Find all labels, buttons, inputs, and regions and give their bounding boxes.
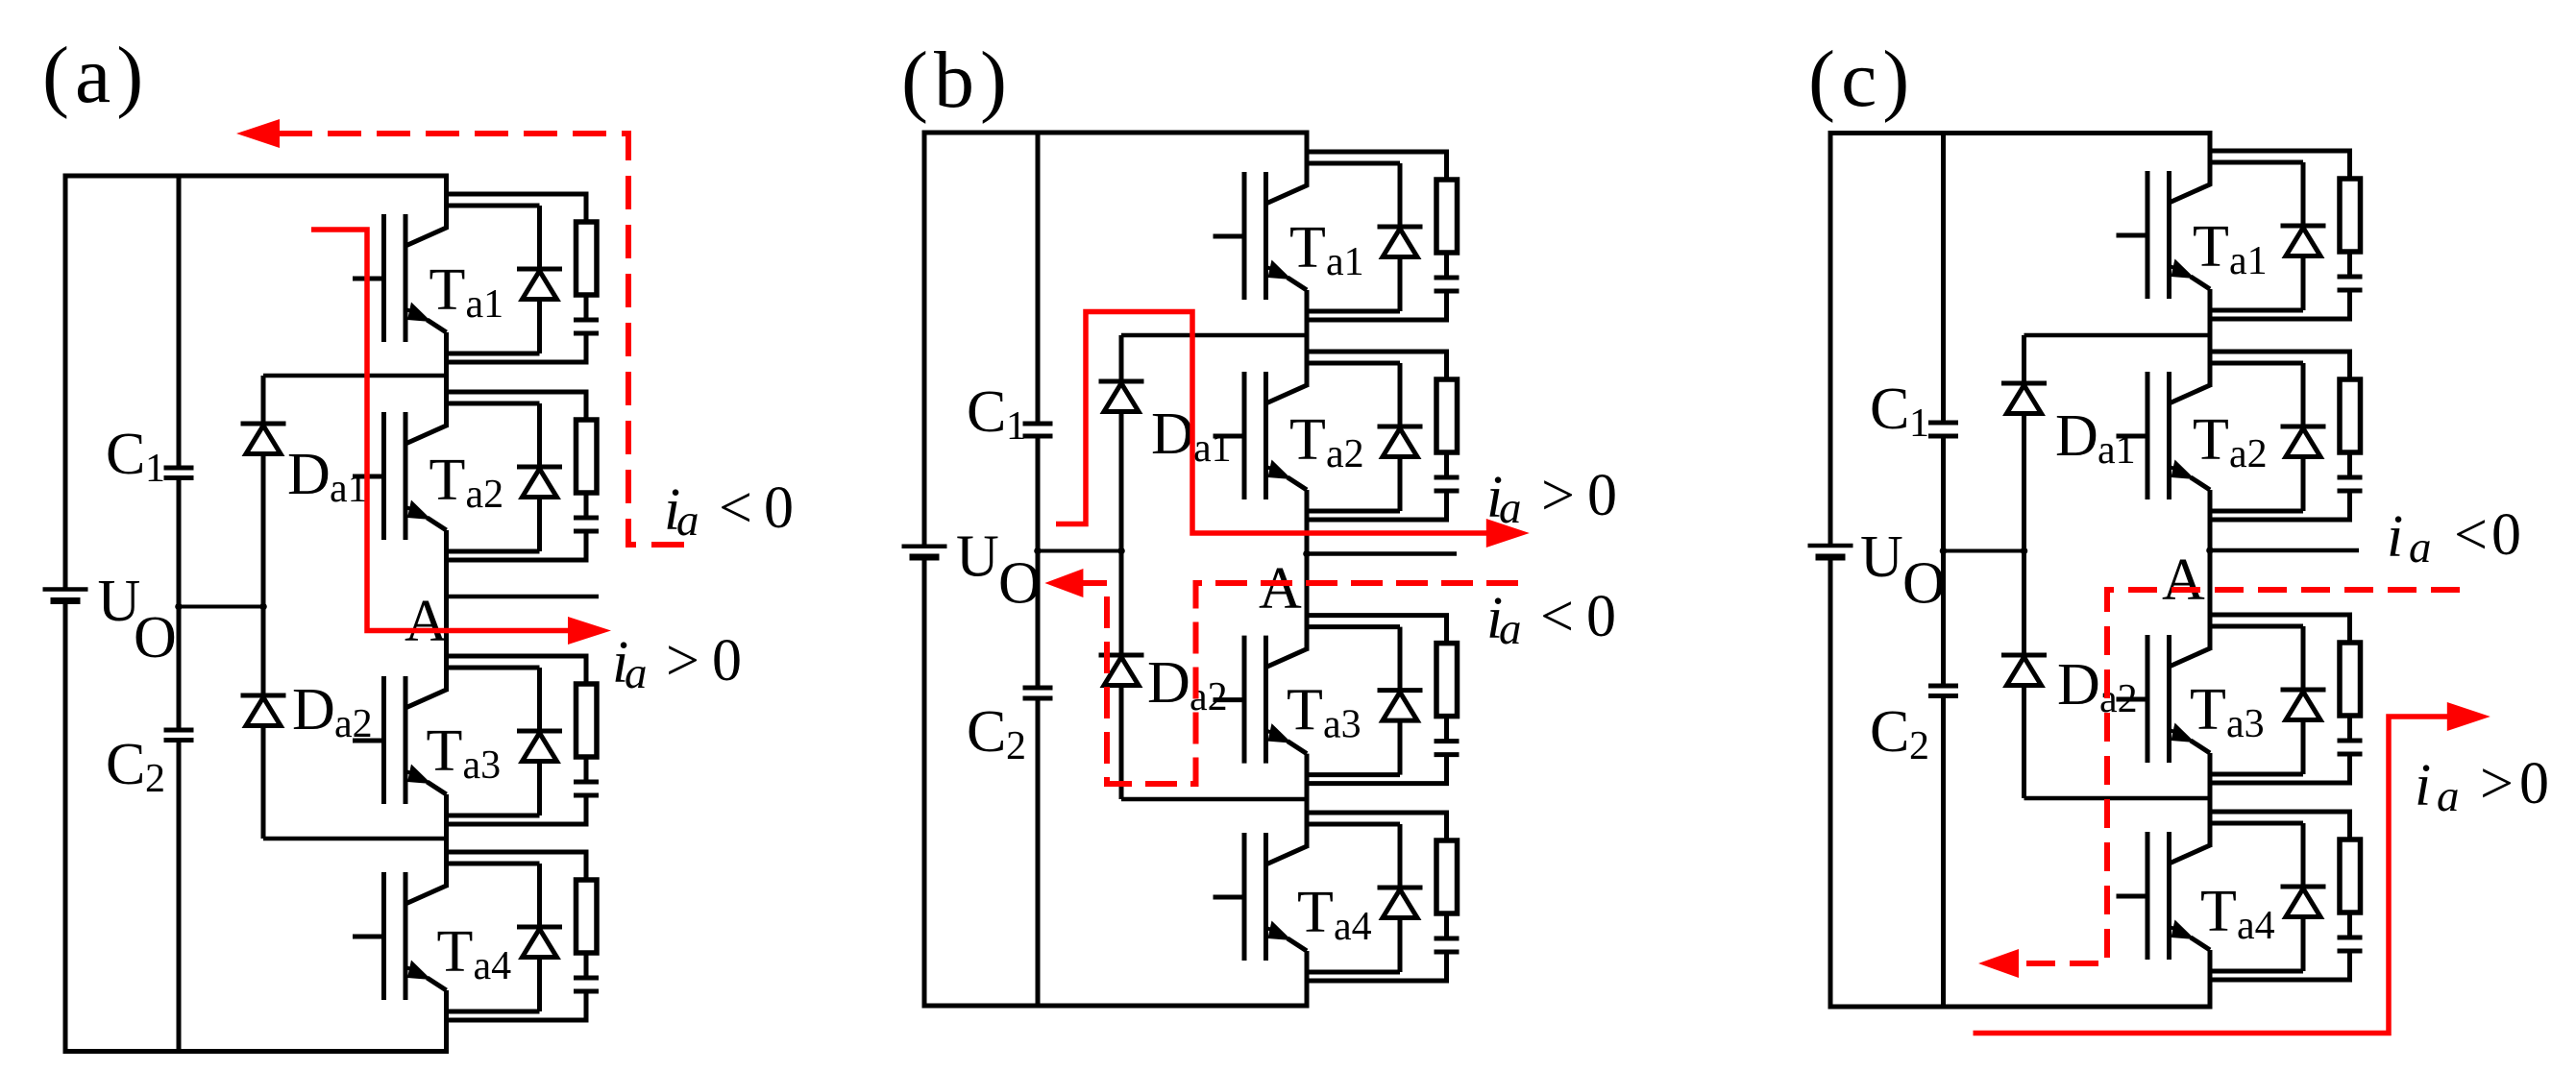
current path ia>0 (solid red, panel c)	[1974, 717, 2448, 1034]
svg-text:a3: a3	[463, 743, 502, 788]
diode antiparallel of Ta2	[517, 403, 562, 551]
wire diode bottom tap Ta2	[447, 549, 540, 554]
svg-text:O: O	[1902, 551, 1946, 617]
svg-text:C: C	[1870, 699, 1909, 765]
capacitor snubber of Ta1	[2338, 277, 2363, 290]
wire left source rail lower	[1828, 557, 1833, 1007]
svg-text:0: 0	[712, 628, 742, 694]
wire neutral point O	[1944, 549, 2024, 553]
transistor Ta2 (IGBT)	[353, 374, 503, 540]
node A output line	[2210, 548, 2359, 553]
wire resistor-capacitor link Ta3	[584, 757, 589, 782]
current path ia>0 (solid red, panel b)	[1056, 312, 1486, 534]
svg-text:D: D	[1151, 402, 1194, 467]
svg-text:(b): (b)	[901, 36, 1013, 125]
svg-text:<: <	[719, 475, 752, 541]
wire Ta2 emitter to node A to Ta3 collector	[2208, 490, 2213, 650]
svg-text:a4: a4	[474, 944, 512, 988]
wire diode bottom tap Ta3	[2210, 772, 2303, 777]
wire diode top tap Ta1	[2210, 160, 2303, 165]
battery U_O (DC source)	[43, 569, 177, 670]
svg-text:>: >	[2480, 751, 2514, 816]
wire Ta1 emitter to Ta2 collector	[1305, 290, 1310, 387]
svg-text:C: C	[106, 732, 145, 797]
diode Da1 (clamp)	[2001, 383, 2047, 414]
wire diode bottom tap Ta4	[447, 1010, 540, 1014]
diode Da1 (clamp)	[1099, 381, 1144, 412]
capacitor snubber of Ta3	[2338, 741, 2363, 754]
svg-text:T: T	[2190, 677, 2226, 742]
current path ia>0 (solid red, panel a)	[311, 230, 571, 631]
wire diode top tap Ta2	[2210, 361, 2303, 366]
svg-text:T: T	[1289, 215, 1326, 280]
wire Da2 to Ta3/Ta4 junction	[1121, 797, 1307, 802]
capacitor C2	[967, 688, 1053, 768]
wire snubber bottom tap Ta4	[447, 989, 587, 1020]
wire resistor-capacitor link Ta1	[584, 295, 589, 320]
node A junction dot	[2206, 547, 2214, 554]
wire capacitor rail middle	[177, 478, 182, 731]
wire capacitor rail lower	[1941, 696, 1946, 1008]
svg-text:C: C	[967, 699, 1006, 765]
wire snubber top tap Ta2	[1307, 352, 1447, 379]
diode antiparallel of Ta3	[2281, 626, 2326, 774]
wire diode top tap Ta4	[1307, 822, 1400, 827]
svg-text:C: C	[967, 379, 1006, 445]
svg-text:1: 1	[1006, 404, 1026, 449]
wire Ta3 emitter to Ta4 collector	[1305, 754, 1310, 848]
transistor Ta1 (IGBT)	[2117, 133, 2268, 299]
wire Ta1 emitter to Ta2 collector	[444, 332, 449, 427]
svg-text:<: <	[1540, 584, 1574, 649]
wire Da1 to Ta1/Ta2 junction	[1121, 333, 1307, 338]
svg-text:0: 0	[2519, 751, 2549, 816]
transistor Ta1 (IGBT)	[353, 176, 503, 342]
wire diode bottom tap Ta1	[2210, 308, 2303, 313]
wire resistor-capacitor link Ta2	[2347, 452, 2352, 477]
svg-text:a4: a4	[2237, 904, 2275, 948]
wire diode top tap Ta3	[2210, 624, 2303, 629]
svg-text:C: C	[1870, 377, 1909, 442]
current path ia<0 (dashed red, panel a)	[279, 134, 684, 545]
svg-text:<: <	[2454, 502, 2488, 568]
wire positive top rail	[1828, 131, 2213, 135]
wire left source rail lower	[63, 601, 68, 1052]
wire left source rail lower	[922, 557, 927, 1006]
transistor Ta2 (IGBT)	[1214, 333, 1364, 499]
svg-text:D: D	[292, 677, 335, 742]
capacitor snubber of Ta4	[574, 978, 599, 991]
svg-text:D: D	[1147, 650, 1190, 716]
svg-text:T: T	[429, 257, 466, 323]
transistor Ta3 (IGBT)	[2117, 596, 2265, 763]
wire diode bottom tap Ta1	[447, 352, 540, 356]
wire Ta2 emitter to node A to Ta3 collector	[444, 530, 449, 692]
capacitor snubber of Ta2	[574, 518, 599, 531]
transistor Ta4 (IGBT)	[1214, 794, 1372, 961]
svg-text:T: T	[2193, 407, 2229, 473]
wire snubber top tap Ta4	[2210, 812, 2350, 840]
diode antiparallel of Ta4	[2281, 823, 2326, 971]
wire snubber top tap Ta1	[1307, 152, 1447, 180]
svg-text:a: a	[1499, 483, 1522, 533]
arrowhead ia>0 (panel c)	[2447, 702, 2490, 731]
node O junction dot left	[1940, 548, 1948, 555]
arrowhead ia>0 (panel a)	[568, 617, 611, 645]
wire snubber top tap Ta1	[2210, 151, 2350, 179]
transistor Ta4 (IGBT)	[2117, 793, 2275, 960]
wire clamp rail (Da1-Da2)	[261, 376, 266, 839]
wire resistor-capacitor link Ta3	[2347, 716, 2352, 741]
transistor Ta4 (IGBT)	[353, 834, 511, 1000]
svg-text:a2: a2	[466, 473, 504, 517]
wire Ta3 emitter to Ta4 collector	[444, 794, 449, 888]
wire positive top rail	[922, 131, 1310, 135]
resistor snubber of Ta1	[577, 222, 598, 295]
wire positive top rail	[63, 174, 450, 179]
svg-text:T: T	[2193, 214, 2229, 280]
battery U_O (DC source)	[1808, 524, 1946, 617]
diode antiparallel of Ta4	[517, 864, 562, 1011]
diode antiparallel of Ta3	[517, 668, 562, 815]
wire Ta4 emitter to bottom rail	[2208, 950, 2213, 1007]
svg-text:T: T	[1289, 407, 1326, 473]
svg-text:U: U	[1860, 524, 1903, 590]
node O junction dot right	[2021, 548, 2028, 555]
svg-text:(c): (c)	[1808, 35, 1915, 124]
node A junction dot	[1303, 550, 1311, 558]
wire clamp rail (Da1-Da2)	[2022, 335, 2026, 798]
wire neutral point O	[1038, 549, 1121, 553]
wire capacitor rail middle	[1036, 436, 1041, 688]
svg-text:A: A	[1259, 556, 1302, 621]
wire snubber bottom tap Ta2	[1307, 489, 1447, 520]
current path ia<0 (dashed red, panel c)	[2019, 590, 2460, 963]
wire capacitor rail middle	[1941, 436, 1946, 686]
svg-text:D: D	[287, 442, 331, 507]
wire diode bottom tap Ta1	[1307, 309, 1400, 314]
svg-text:T: T	[1287, 678, 1323, 743]
svg-text:a: a	[2409, 523, 2432, 572]
wire left source rail upper	[922, 133, 927, 545]
svg-text:D: D	[2055, 403, 2098, 469]
wire resistor-capacitor link Ta2	[584, 493, 589, 518]
svg-text:a: a	[676, 496, 699, 546]
wire snubber bottom tap Ta2	[2210, 489, 2350, 520]
wire diode top tap Ta1	[1307, 161, 1400, 166]
arrowhead ia<0 (panel a)	[236, 119, 280, 148]
wire left source rail upper	[63, 176, 68, 588]
node O junction dot right	[259, 603, 267, 611]
diode antiparallel of Ta3	[1378, 627, 1423, 775]
wire snubber bottom tap Ta1	[1307, 289, 1447, 320]
svg-text:a1: a1	[1326, 240, 1364, 284]
diode antiparallel of Ta2	[2281, 363, 2326, 511]
wire Da2 to Ta3/Ta4 junction	[2024, 796, 2211, 801]
wire snubber top tap Ta3	[447, 656, 587, 684]
capacitor snubber of Ta2	[2338, 477, 2363, 491]
wire diode top tap Ta4	[2210, 821, 2303, 826]
arrowhead ia>0 (panel b)	[1486, 519, 1530, 548]
svg-text:a1: a1	[2229, 239, 2268, 283]
svg-text:1: 1	[145, 447, 165, 491]
transistor Ta3 (IGBT)	[353, 638, 501, 804]
svg-text:i: i	[2415, 753, 2431, 818]
arrowhead ia<0 (panel b)	[1044, 569, 1083, 597]
wire Ta4 emitter to bottom rail	[444, 990, 449, 1052]
svg-text:A: A	[405, 589, 448, 654]
wire diode top tap Ta2	[447, 402, 540, 406]
wire negative bottom rail	[1828, 1005, 2213, 1010]
wire snubber bottom tap Ta1	[2210, 288, 2350, 319]
wire Da1 to Ta1/Ta2 junction	[2024, 333, 2211, 338]
wire snubber top tap Ta4	[1307, 813, 1447, 840]
wire snubber bottom tap Ta3	[2210, 752, 2350, 783]
wire negative bottom rail	[63, 1049, 450, 1054]
node A output line	[1307, 551, 1457, 556]
svg-text:T: T	[429, 448, 466, 513]
svg-text:0: 0	[764, 475, 794, 541]
svg-text:a: a	[625, 648, 648, 698]
svg-text:a2: a2	[1326, 432, 1364, 476]
capacitor C1	[1870, 377, 1958, 446]
wire snubber top tap Ta1	[447, 194, 587, 222]
svg-text:i: i	[2387, 504, 2403, 570]
wire capacitor rail upper	[177, 176, 182, 468]
svg-text:C: C	[106, 422, 145, 487]
svg-text:D: D	[2057, 652, 2100, 718]
wire Ta2 emitter to node A to Ta3 collector	[1305, 490, 1310, 651]
svg-text:0: 0	[1587, 463, 1617, 528]
svg-text:T: T	[427, 718, 463, 784]
wire left source rail upper	[1828, 134, 1833, 545]
wire snubber bottom tap Ta4	[1307, 950, 1447, 981]
capacitor C1	[967, 379, 1053, 449]
wire snubber bottom tap Ta2	[447, 529, 587, 560]
wire snubber top tap Ta2	[447, 392, 587, 420]
svg-text:a3: a3	[2226, 702, 2265, 746]
wire resistor-capacitor link Ta4	[584, 953, 589, 978]
capacitor snubber of Ta3	[1435, 742, 1460, 755]
svg-text:a: a	[1499, 604, 1522, 654]
wire diode bottom tap Ta4	[2210, 969, 2303, 974]
wire snubber top tap Ta3	[2210, 615, 2350, 643]
svg-text:T: T	[437, 919, 474, 985]
wire resistor-capacitor link Ta4	[2347, 913, 2352, 937]
wire diode bottom tap Ta3	[1307, 772, 1400, 777]
wire snubber top tap Ta4	[447, 852, 587, 880]
svg-text:1: 1	[1909, 402, 1929, 446]
transistor Ta2 (IGBT)	[2117, 333, 2268, 499]
wire snubber bottom tap Ta3	[447, 793, 587, 824]
wire negative bottom rail	[922, 1004, 1310, 1009]
svg-text:>: >	[666, 628, 699, 694]
capacitor snubber of Ta1	[574, 320, 599, 333]
svg-text:>: >	[1541, 463, 1575, 528]
svg-text:a1: a1	[330, 467, 368, 511]
transistor Ta1 (IGBT)	[1214, 134, 1364, 300]
wire resistor-capacitor link Ta1	[2347, 252, 2352, 277]
diode Da2 (clamp)	[1099, 655, 1144, 686]
wire resistor-capacitor link Ta4	[1444, 913, 1449, 938]
diode antiparallel of Ta1	[1378, 163, 1423, 311]
resistor snubber of Ta2	[2340, 379, 2361, 452]
wire capacitor rail upper	[1036, 133, 1041, 424]
wire resistor-capacitor link Ta2	[1444, 452, 1449, 477]
svg-text:A: A	[2162, 548, 2205, 613]
svg-text:a2: a2	[2229, 432, 2268, 476]
svg-text:a: a	[2437, 771, 2460, 821]
capacitor C1	[106, 422, 194, 491]
svg-text:T: T	[1297, 880, 1334, 945]
resistor snubber of Ta4	[1436, 840, 1458, 913]
diode Da2 (clamp)	[241, 695, 286, 726]
wire Ta1 emitter to Ta2 collector	[2208, 289, 2213, 387]
wire diode top tap Ta1	[447, 204, 540, 208]
diode Da1 (clamp)	[241, 424, 286, 454]
resistor snubber of Ta1	[1436, 180, 1458, 253]
wire snubber top tap Ta3	[1307, 616, 1447, 644]
battery U_O (DC source)	[902, 524, 1042, 617]
wire diode top tap Ta3	[1307, 624, 1400, 629]
wire diode bottom tap Ta2	[2210, 509, 2303, 514]
diode antiparallel of Ta1	[517, 206, 562, 353]
svg-text:O: O	[134, 605, 177, 670]
node O junction dot left	[175, 603, 183, 611]
node O junction dot left	[1034, 548, 1042, 555]
resistor snubber of Ta3	[577, 684, 598, 757]
wire snubber bottom tap Ta1	[447, 331, 587, 362]
wire Ta4 emitter to bottom rail	[1305, 951, 1310, 1006]
resistor snubber of Ta2	[1436, 379, 1458, 452]
wire resistor-capacitor link Ta1	[1444, 253, 1449, 278]
svg-text:0: 0	[1586, 584, 1616, 649]
capacitor snubber of Ta1	[1435, 278, 1460, 291]
svg-text:0: 0	[2491, 502, 2521, 568]
svg-text:T: T	[2200, 879, 2237, 944]
resistor snubber of Ta3	[2340, 643, 2361, 716]
wire diode bottom tap Ta4	[1307, 970, 1400, 975]
svg-text:U: U	[956, 524, 999, 590]
current path ia<0 (dashed red, panel b)	[1075, 583, 1521, 784]
capacitor snubber of Ta2	[1435, 477, 1460, 491]
capacitor snubber of Ta3	[574, 782, 599, 795]
resistor snubber of Ta1	[2340, 179, 2361, 252]
wire Ta3 emitter to Ta4 collector	[2208, 753, 2213, 847]
wire snubber bottom tap Ta3	[1307, 753, 1447, 784]
wire Da2 to Ta3/Ta4 junction	[263, 837, 447, 841]
wire snubber top tap Ta2	[2210, 352, 2350, 379]
wire capacitor rail lower	[1036, 698, 1041, 1006]
svg-text:a1: a1	[1193, 426, 1232, 471]
svg-text:a1: a1	[466, 282, 504, 327]
resistor snubber of Ta3	[1436, 644, 1458, 717]
svg-text:2: 2	[1006, 724, 1026, 768]
diode antiparallel of Ta2	[1378, 363, 1423, 511]
wire diode bottom tap Ta2	[1307, 509, 1400, 514]
transistor Ta3 (IGBT)	[1214, 597, 1362, 764]
wire capacitor rail upper	[1941, 134, 1946, 424]
wire diode top tap Ta3	[447, 666, 540, 670]
capacitor snubber of Ta4	[2338, 937, 2363, 951]
node O junction dot right	[1117, 548, 1125, 555]
wire diode bottom tap Ta3	[447, 814, 540, 818]
wire neutral point O	[179, 605, 263, 609]
wire Da1 to Ta1/Ta2 junction	[263, 374, 447, 378]
wire resistor-capacitor link Ta3	[1444, 717, 1449, 742]
svg-text:a4: a4	[1334, 905, 1372, 949]
svg-text:O: O	[998, 551, 1042, 617]
wire diode top tap Ta4	[447, 862, 540, 866]
resistor snubber of Ta2	[577, 420, 598, 493]
capacitor snubber of Ta4	[1435, 938, 1460, 952]
svg-text:(a): (a)	[42, 31, 149, 120]
capacitor C2	[106, 730, 194, 801]
diode antiparallel of Ta1	[2281, 162, 2326, 310]
svg-text:2: 2	[145, 757, 165, 801]
svg-text:2: 2	[1909, 724, 1929, 768]
wire capacitor rail lower	[177, 741, 182, 1052]
capacitor C2	[1870, 686, 1958, 768]
arrowhead ia<0 (panel c)	[1978, 949, 2019, 978]
diode antiparallel of Ta4	[1378, 824, 1423, 972]
resistor snubber of Ta4	[2340, 840, 2361, 913]
resistor snubber of Ta4	[577, 880, 598, 953]
node A output line	[447, 595, 600, 599]
svg-text:a3: a3	[1323, 703, 1362, 747]
wire snubber bottom tap Ta4	[2210, 949, 2350, 980]
wire diode top tap Ta2	[1307, 361, 1400, 366]
wire clamp rail (Da1-Da2)	[1119, 335, 1124, 799]
diode Da2 (clamp)	[2001, 655, 2047, 686]
